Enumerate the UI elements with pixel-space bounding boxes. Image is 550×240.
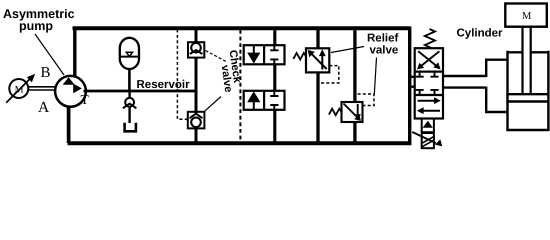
pump P1 (bidirectional pump circle with two triangles) (55, 76, 86, 107)
svg-text:Reservoir: Reservoir (137, 79, 191, 91)
svg-text:Cylinder: Cylinder (457, 28, 504, 40)
accumulator (120, 38, 139, 91)
label "Asymmetric pump" (3, 7, 75, 33)
motor M1 (electric motor, variable) (6, 74, 35, 103)
relief valve RV1 (293, 48, 338, 83)
wire: box right edge (408, 27, 411, 144)
wire: relief valve 1 branch line (316, 29, 319, 142)
dashed divider line (239, 30, 241, 142)
svg-text:M: M (522, 11, 532, 22)
svg-text:valve: valve (219, 64, 235, 93)
wire: T line from pump to check-valve line (84, 90, 197, 93)
check valve on reservoir line (ball in seat) (123, 92, 137, 124)
shaft motor-pump (double line) (29, 87, 55, 90)
position 1: crossed arrows (417, 51, 441, 69)
svg-text:pump: pump (19, 19, 53, 33)
pilot line (dashed) from top line to CV2 (177, 30, 187, 120)
svg-text:valve: valve (370, 45, 399, 57)
leader: text to CV2 (205, 97, 222, 112)
label Check valve (rotated) (219, 49, 244, 93)
svg-text:A: A (38, 99, 50, 116)
wire: pump A drop (67, 106, 71, 143)
proportional solenoid (412, 119, 442, 149)
wire: valve to cylinder pipe A (upper) (443, 60, 508, 77)
svg-text:Relief: Relief (367, 33, 398, 45)
wire: relief valve 2 branch line (353, 29, 356, 142)
relief valve RV2 (329, 94, 374, 122)
position 2: blocked ports (T stubs) (416, 72, 439, 95)
mass M load box (505, 4, 547, 27)
wire: 2/2 valve branch line (273, 29, 276, 142)
check valve CV2 (bottom, pilot operated) (188, 112, 205, 129)
leader line from pump label to pump (35, 34, 64, 75)
tank / reservoir symbol (125, 123, 136, 132)
wire: box bottom edge (68, 141, 412, 145)
wire: pump B riser / box left edge (73, 28, 76, 76)
leader: text to RV2 (374, 58, 376, 95)
proportional directional valve: spring (425, 29, 435, 48)
valve port stubs (left, to box) (410, 77, 415, 87)
2/2 valve V1 (top, arrow down / blocked) (244, 45, 285, 64)
cylinder (vertical, rod up) (506, 51, 549, 130)
svg-text:B: B (41, 65, 51, 81)
position 3: parallel arrows (417, 97, 441, 114)
piston rod (523, 27, 531, 94)
leader: text to CV1 (206, 51, 228, 63)
leader: text to RV1 (331, 47, 364, 53)
wire: check valve branch line (195, 29, 198, 143)
label Relief valve (367, 33, 398, 57)
check valve CV1 (top) (188, 42, 204, 57)
wire: box top edge (73, 26, 410, 30)
2/2 valve V2 (bottom, arrow up / blocked) (244, 91, 285, 110)
svg-text:T: T (81, 92, 90, 107)
directional valve body (3 positions) (415, 48, 443, 118)
wire: valve to cylinder pipe B (lower) (443, 87, 509, 112)
